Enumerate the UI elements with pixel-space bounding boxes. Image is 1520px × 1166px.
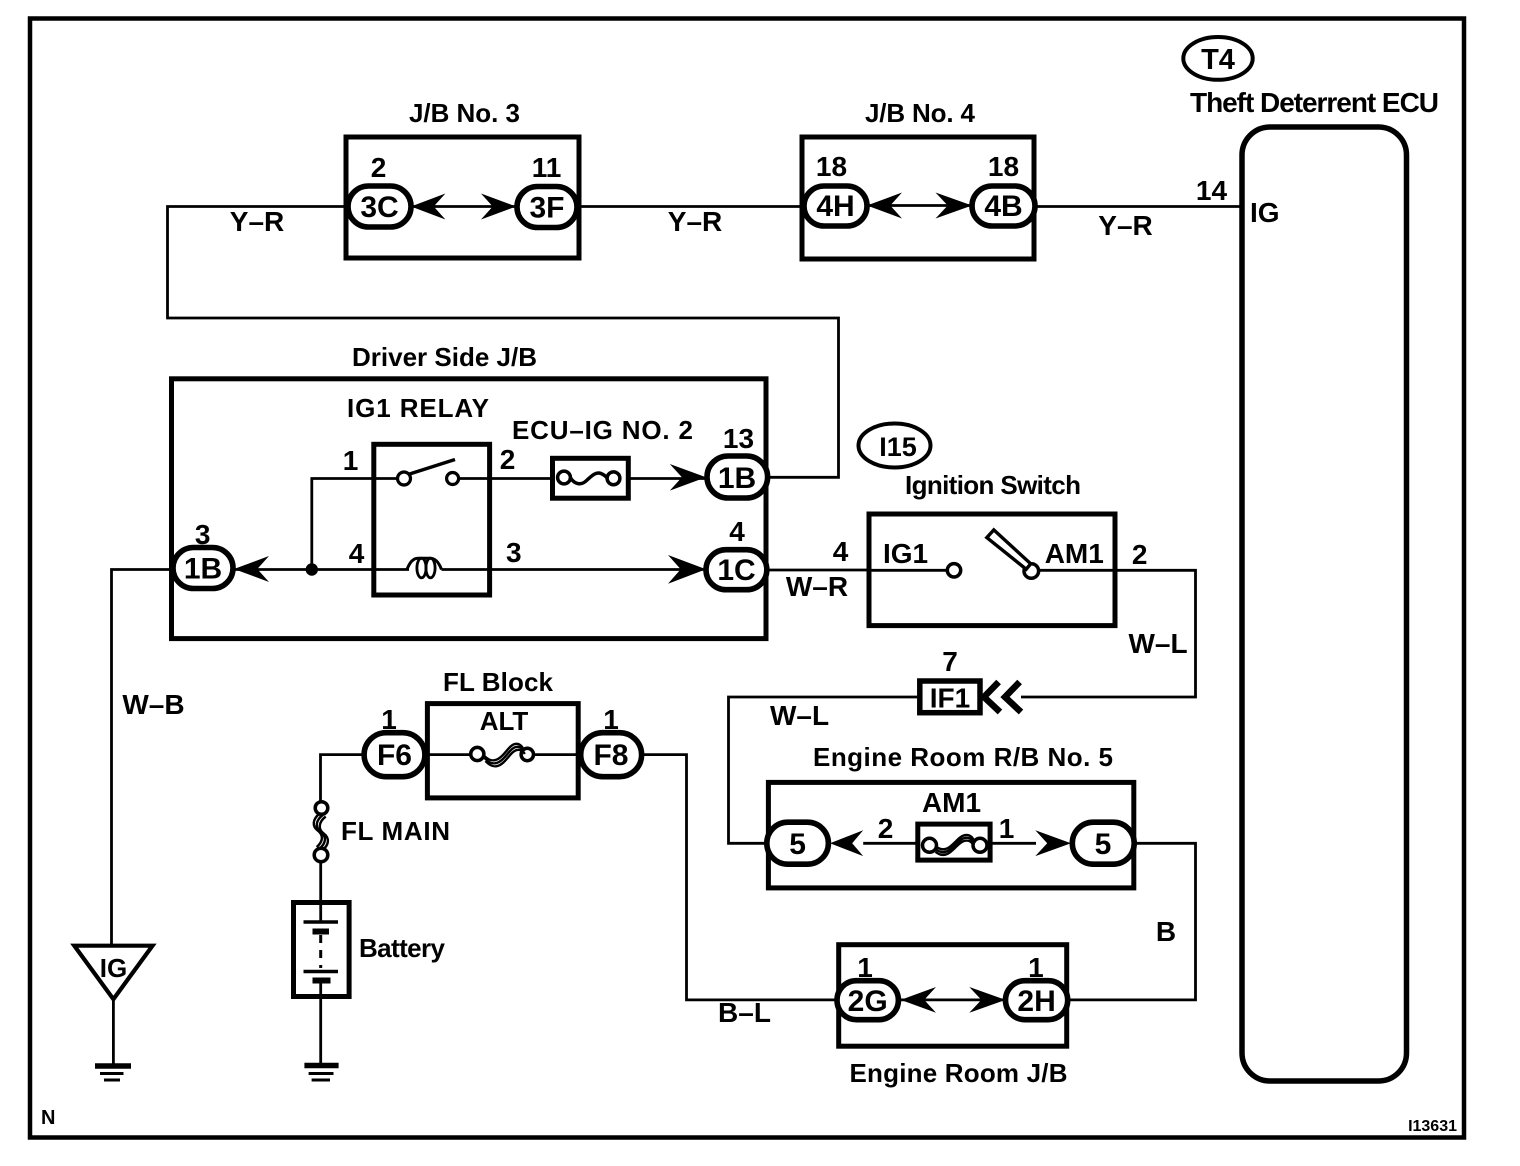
svg-text:N: N: [41, 1107, 55, 1129]
arrow into 3F: [481, 194, 516, 220]
svg-text:Y–R: Y–R: [1098, 210, 1152, 241]
svg-text:3F: 3F: [529, 192, 564, 225]
svg-text:1: 1: [343, 445, 359, 476]
arrow into 4B: [936, 193, 973, 219]
connector 4H: [804, 186, 867, 226]
wire Y-R from 3C left loop: [168, 207, 839, 478]
wire 4B to ECU pin 14: [1035, 205, 1242, 208]
svg-text:IG1: IG1: [883, 538, 928, 569]
wire AM1 fuse to arrow: [990, 842, 1036, 845]
connector symbol I15: [859, 424, 931, 468]
junction box Engine Room J/B: [839, 945, 1067, 1046]
svg-text:Y–R: Y–R: [230, 206, 284, 237]
ground symbol left: [95, 1066, 131, 1080]
wire fuse to 1B(13): [628, 477, 707, 480]
wire IF1 to 5L: [729, 697, 918, 843]
wire relay pin3 to 1C: [490, 568, 706, 571]
terminal IG1: [869, 538, 961, 577]
wire triangle to ground: [112, 999, 115, 1064]
wire inside J/B No.3: [411, 205, 517, 208]
wire relay pin2 to fuse: [490, 477, 553, 480]
svg-text:FL MAIN: FL MAIN: [341, 816, 450, 846]
svg-text:W–R: W–R: [786, 571, 848, 602]
relay block Engine Room R/B No. 5 box: [768, 782, 1133, 888]
wire junction to 1B(3): [234, 568, 374, 571]
svg-text:AM1: AM1: [922, 787, 981, 818]
relay switch contacts: [374, 460, 490, 486]
svg-text:1: 1: [857, 952, 873, 983]
svg-text:1: 1: [999, 813, 1015, 844]
terminal AM1 with blade: [987, 530, 1115, 578]
svg-text:I15: I15: [879, 432, 917, 462]
svg-text:F6: F6: [377, 739, 412, 772]
svg-text:W–B: W–B: [122, 689, 184, 720]
svg-text:J/B No. 4: J/B No. 4: [865, 98, 976, 128]
arrow into 5 right: [1035, 830, 1071, 856]
svg-text:4: 4: [349, 538, 365, 569]
connector F6: [364, 733, 425, 777]
svg-text:Theft Deterrent ECU: Theft Deterrent ECU: [1190, 87, 1439, 118]
svg-text:4B: 4B: [984, 190, 1022, 223]
wire W-B from 1B(3) to IG ground: [112, 570, 174, 946]
svg-text:2: 2: [500, 444, 516, 475]
fuse AM1: [918, 824, 990, 860]
svg-text:ALT: ALT: [480, 706, 529, 736]
svg-text:7: 7: [942, 646, 958, 677]
connector 2H: [1006, 981, 1068, 1020]
svg-text:IG: IG: [100, 953, 127, 983]
svg-text:1B: 1B: [184, 553, 222, 586]
wire F6 to FL MAIN: [321, 755, 365, 802]
battery: [294, 903, 350, 997]
arrow into 2H: [969, 987, 1005, 1013]
fusible link ALT: [425, 744, 581, 767]
svg-text:18: 18: [816, 151, 847, 182]
svg-text:2: 2: [1132, 539, 1148, 570]
switch Ignition Switch box: [869, 514, 1115, 626]
svg-text:J/B No. 3: J/B No. 3: [409, 98, 520, 128]
connector 5 left: [767, 822, 829, 864]
connector 1B pin13: [707, 456, 768, 498]
svg-text:3: 3: [506, 537, 522, 568]
connector 5 right: [1072, 822, 1134, 864]
wire AM1 to IF1: [1021, 570, 1196, 697]
wire 1C to ignition switch: [767, 569, 869, 572]
connector symbol T4: [1183, 37, 1252, 80]
svg-text:IG1 RELAY: IG1 RELAY: [347, 393, 489, 423]
relay coil: [374, 558, 490, 578]
double chevron into IF1: [984, 682, 1021, 712]
wire FL MAIN to battery: [319, 862, 322, 903]
svg-text:1: 1: [381, 704, 397, 735]
svg-text:2: 2: [878, 813, 894, 844]
svg-text:Driver Side J/B: Driver Side J/B: [352, 342, 537, 372]
svg-text:B: B: [1156, 916, 1176, 947]
svg-text:1B: 1B: [718, 462, 756, 495]
svg-text:18: 18: [988, 151, 1019, 182]
svg-text:1: 1: [1028, 952, 1044, 983]
svg-text:ECU–IG NO. 2: ECU–IG NO. 2: [512, 415, 693, 445]
arrow into 3C: [411, 194, 445, 220]
fuse ECU-IG NO. 2: [553, 458, 629, 498]
arrow into 5 left: [830, 830, 863, 856]
svg-text:AM1: AM1: [1045, 538, 1104, 569]
connector 3F: [517, 187, 577, 228]
Driver Side J/B box: [172, 379, 767, 639]
svg-text:14: 14: [1196, 175, 1228, 206]
svg-text:T4: T4: [1201, 44, 1235, 76]
arrow into 2G: [901, 987, 936, 1013]
arrow into 1C: [668, 555, 706, 584]
wire 5R to 2H: [1068, 843, 1196, 1000]
svg-text:3C: 3C: [360, 191, 398, 224]
svg-text:Battery: Battery: [359, 933, 446, 963]
arrow into 1B(13): [670, 464, 706, 491]
fusible link FL MAIN: [314, 802, 328, 862]
connector 2G: [837, 981, 898, 1020]
svg-text:4: 4: [729, 516, 745, 547]
wire 3F to 4H: [577, 205, 804, 208]
svg-text:Y–R: Y–R: [668, 206, 722, 237]
connector 3C: [348, 186, 411, 227]
svg-text:4H: 4H: [816, 190, 854, 223]
svg-text:3: 3: [195, 519, 211, 550]
fuse block FL Block box: [427, 704, 578, 798]
arrow into 4H: [867, 193, 902, 219]
wire battery to ground: [319, 997, 322, 1064]
svg-text:IG: IG: [1250, 197, 1280, 228]
svg-text:Ignition Switch: Ignition Switch: [905, 470, 1081, 500]
svg-text:2G: 2G: [848, 985, 888, 1018]
svg-text:4: 4: [833, 536, 849, 567]
wire arrow to AM1 fuse: [863, 842, 918, 845]
arrow into 1B(3): [234, 556, 269, 582]
wire inside ERJB: [898, 999, 1005, 1002]
svg-text:2: 2: [371, 152, 387, 183]
svg-text:13: 13: [723, 423, 754, 454]
svg-text:W–L: W–L: [770, 700, 829, 731]
Theft Deterrent ECU box: [1242, 127, 1407, 1081]
svg-text:5: 5: [1095, 828, 1112, 861]
wire relay pin1 to junction: [312, 479, 374, 570]
junction box J/B No. 3: [346, 137, 579, 258]
svg-text:IF1: IF1: [930, 683, 970, 714]
connector 4B: [972, 186, 1035, 226]
svg-text:1: 1: [603, 704, 619, 735]
svg-text:W–L: W–L: [1128, 628, 1187, 659]
svg-text:F8: F8: [593, 739, 628, 772]
ground symbol battery: [304, 1066, 338, 1081]
svg-text:2H: 2H: [1017, 985, 1055, 1018]
ground triangle IG: [74, 946, 152, 1000]
svg-text:FL Block: FL Block: [443, 667, 554, 697]
wire 2G to F8: [642, 755, 837, 1000]
junction dot: [306, 563, 318, 575]
svg-text:B–L: B–L: [718, 997, 771, 1028]
connector F8: [581, 733, 642, 777]
svg-text:11: 11: [532, 152, 562, 183]
svg-text:Engine Room J/B: Engine Room J/B: [850, 1058, 1068, 1088]
junction box J/B No. 4: [802, 137, 1034, 259]
connector 1B pin3: [173, 548, 233, 589]
relay IG1 RELAY box: [374, 444, 490, 595]
svg-text:Engine Room R/B No. 5: Engine Room R/B No. 5: [813, 742, 1113, 772]
svg-text:I13631: I13631: [1408, 1118, 1457, 1135]
fusible link IF1: [920, 681, 980, 714]
connector 1C: [706, 550, 767, 590]
svg-text:1C: 1C: [717, 554, 755, 587]
svg-text:5: 5: [789, 828, 806, 861]
wire inside J/B No.4: [867, 204, 972, 207]
